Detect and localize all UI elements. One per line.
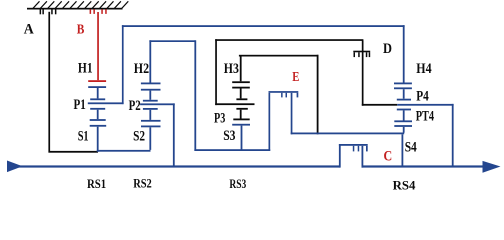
wire: P2 riser to main shaft bbox=[173, 103, 175, 166]
svg-text:RS1: RS1 bbox=[87, 177, 106, 190]
svg-text:B: B bbox=[77, 23, 85, 38]
wire: P3 stem bbox=[240, 110, 242, 119]
wire: S1 stem down bbox=[97, 127, 99, 152]
brake B bbox=[90, 9, 107, 14]
svg-text:S1: S1 bbox=[78, 128, 89, 144]
svg-text:H1: H1 bbox=[78, 60, 93, 76]
wire: output riser bbox=[452, 104, 454, 167]
main shaft left arrow bbox=[7, 161, 23, 173]
brake A bbox=[40, 9, 57, 14]
svg-text:E: E bbox=[292, 70, 299, 85]
clutch H1 plates bbox=[88, 80, 106, 88]
clutch E comb bbox=[269, 91, 299, 151]
svg-text:S2: S2 bbox=[133, 129, 145, 145]
brake C comb and detour bbox=[339, 144, 368, 168]
gear P3 plates bbox=[215, 98, 254, 109]
svg-text:PT4: PT4 bbox=[416, 108, 434, 124]
svg-text:S4: S4 bbox=[405, 139, 417, 155]
wire: top rail left riser to P1 bbox=[122, 25, 124, 104]
gear P1 plates bbox=[88, 98, 124, 109]
svg-text:RS4: RS4 bbox=[393, 178, 417, 190]
svg-text:RS2: RS2 bbox=[133, 176, 152, 190]
gear S1 plates bbox=[90, 119, 107, 127]
clutch H3 plates bbox=[232, 81, 250, 88]
wire: PT4 stem to rail bbox=[403, 127, 405, 133]
main shaft right arrow bbox=[483, 161, 501, 173]
gear S2 plates bbox=[141, 120, 161, 127]
wire: black rail (ring R3 / D) bbox=[215, 39, 363, 41]
wire: H1 stem bbox=[97, 88, 99, 98]
svg-text:RS3: RS3 bbox=[229, 177, 246, 190]
clutch H2 plates bbox=[141, 83, 161, 91]
wire: ring R3 riser bbox=[215, 39, 217, 105]
wire: top rail (blue) bbox=[122, 25, 405, 27]
svg-text:D: D bbox=[383, 41, 392, 57]
wire: H3 bracket right riser bbox=[317, 55, 319, 135]
svg-text:H2: H2 bbox=[134, 61, 149, 77]
wire: S4 drop to main shaft bbox=[402, 134, 404, 166]
frame (fixed ground) bbox=[27, 1, 128, 9]
wire: P2 stem bbox=[149, 110, 151, 120]
wire: H3 bracket rail bbox=[239, 55, 319, 57]
svg-text:C: C bbox=[384, 149, 393, 165]
wire: H3 stem up bbox=[240, 57, 242, 82]
svg-text:P2: P2 bbox=[129, 98, 141, 114]
wire: ring R1 bottom link bbox=[48, 151, 98, 153]
wire: main shaft right segment bbox=[362, 165, 484, 167]
wire: H2 stem bbox=[149, 91, 151, 100]
wire: H2-E rail bbox=[194, 149, 270, 151]
wire: shaft D vertical bbox=[362, 40, 364, 105]
wire: S2 stem down bbox=[149, 127, 151, 150]
svg-text:S3: S3 bbox=[223, 128, 235, 144]
wire: E-S4 rail bbox=[291, 133, 405, 135]
gear P2 plates bbox=[140, 100, 175, 110]
svg-text:H4: H4 bbox=[416, 61, 431, 77]
wire: P1 stem bbox=[97, 110, 99, 119]
wire: shaft A (black vertical to ring R1) bbox=[48, 12, 50, 151]
wire: H4 stem bbox=[403, 89, 405, 99]
brake D bbox=[353, 51, 370, 57]
wire: S3 stem down bbox=[241, 126, 243, 151]
wire: E shaft down bbox=[291, 93, 293, 135]
svg-text:P4: P4 bbox=[416, 88, 429, 104]
clutch H4 plates bbox=[394, 83, 412, 90]
wire: shaft B (red vertical) bbox=[97, 12, 99, 80]
wire: H2 bracket stem down to H2 bbox=[149, 40, 151, 83]
gear S3 plates bbox=[232, 119, 250, 126]
wire: H2 bracket rail bbox=[149, 40, 195, 42]
wire: H3-P3 stem bbox=[240, 89, 242, 99]
wire: top rail right riser to H4 bbox=[403, 25, 405, 83]
svg-text:A: A bbox=[24, 22, 34, 38]
svg-text:H3: H3 bbox=[224, 61, 239, 77]
svg-text:P3: P3 bbox=[214, 110, 225, 126]
gear P4 plates bbox=[362, 99, 454, 111]
svg-text:P1: P1 bbox=[74, 97, 86, 113]
wire: H2 bracket right riser down bbox=[194, 40, 196, 151]
wire: P4 stem bbox=[403, 110, 405, 120]
wire: main shaft left segment bbox=[9, 165, 340, 167]
gear PT4 plates bbox=[394, 120, 412, 127]
wire: S1-S2 rail bbox=[97, 150, 151, 152]
